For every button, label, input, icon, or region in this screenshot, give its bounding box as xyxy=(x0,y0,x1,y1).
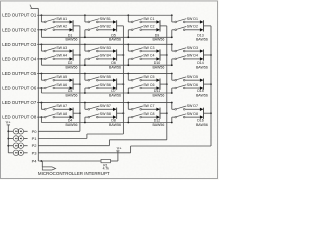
wire - switch D8 to diode xyxy=(185,116,200,118)
svg-text:SW B6: SW B6 xyxy=(100,83,111,87)
svg-text:LED OUTPUT O4: LED OUTPUT O4 xyxy=(2,56,37,61)
diode D11b xyxy=(156,86,160,89)
svg-text:SW C2: SW C2 xyxy=(143,25,154,29)
switch SW B3 xyxy=(88,46,111,52)
wire - cathode out to sense col D xyxy=(204,25,212,27)
wire - switch B7 to diode xyxy=(98,108,113,110)
wire - riser col B to row O4 routing xyxy=(84,59,86,65)
wire - cathode out to sense col A xyxy=(73,83,80,85)
switch SW A7 xyxy=(44,104,67,110)
wire - switch C6 to diode xyxy=(142,87,157,89)
diode D16a xyxy=(200,108,204,111)
switch SW B2 xyxy=(88,25,111,31)
wire - cathode out to sense col B xyxy=(117,112,124,114)
wire - cathode out to sense col D xyxy=(204,112,212,114)
junction row O1 col C xyxy=(127,14,129,16)
svg-text:P0: P0 xyxy=(32,129,38,134)
wire - cathode out to sense col A xyxy=(73,112,80,114)
wire - switch A6 to diode xyxy=(55,87,70,89)
LED indicator DS4a xyxy=(13,150,19,156)
LED indicator DS2a xyxy=(13,136,19,142)
wire - drop row O7 col A xyxy=(40,103,42,110)
wire - riser col D to row O8 routing xyxy=(171,117,173,122)
svg-text:P3: P3 xyxy=(32,150,38,155)
diode D8b xyxy=(113,115,117,118)
junction row O5 col D xyxy=(171,73,173,75)
diode D6a xyxy=(113,49,117,52)
wire - row O2 routing under-line xyxy=(41,36,171,38)
svg-text:SW B4: SW B4 xyxy=(100,54,111,58)
junction sense col C pair 4 xyxy=(166,112,168,114)
junction row O1 col A xyxy=(41,14,43,16)
wire - switch A2 to diode xyxy=(55,29,70,31)
wire - row O4 routing under-line xyxy=(41,64,171,66)
LED indicator DS4b xyxy=(18,150,24,156)
svg-text:D6: D6 xyxy=(111,61,116,65)
svg-text:SW A2: SW A2 xyxy=(56,25,67,29)
wire - riser col A row O4 xyxy=(40,59,42,65)
junction row O3 col C xyxy=(127,43,129,45)
junction row O7 col C xyxy=(127,102,129,104)
wire - cathode out to sense col A xyxy=(73,25,80,27)
diode D13b xyxy=(200,28,204,31)
junction under-line col B xyxy=(84,92,86,94)
wire - riser col C to row O8 routing xyxy=(127,117,129,122)
wire - switch D7 to diode xyxy=(185,108,200,110)
junction under-line col B xyxy=(84,122,86,124)
switch SW C6 xyxy=(131,83,154,89)
wire - drop row O7 col C xyxy=(127,103,129,110)
wire - switch A5 to diode xyxy=(55,79,70,81)
wire - net P0 horizontal xyxy=(38,130,80,132)
switch SW C3 xyxy=(131,46,154,52)
wire - switch A4 to diode xyxy=(55,58,70,60)
switch SW D7 xyxy=(175,104,198,110)
junction under-line col C xyxy=(127,64,129,66)
svg-text:LED OUTPUT O2: LED OUTPUT O2 xyxy=(2,27,37,32)
diode D15b xyxy=(200,86,204,89)
svg-text:D7: D7 xyxy=(111,89,116,93)
diode D7a xyxy=(113,78,117,81)
svg-text:SW D6: SW D6 xyxy=(187,83,198,87)
wire - row O7 horizontal xyxy=(37,102,172,104)
junction sense col A pair 2 xyxy=(79,54,81,56)
wire - riser col B to row O2 routing xyxy=(84,30,86,38)
junction sense col B pair 3 xyxy=(123,83,125,85)
junction under-line col D xyxy=(171,36,173,38)
wire - switch C1 to diode xyxy=(142,21,157,23)
diode D8a xyxy=(113,108,117,111)
wire - R1 to V+ xyxy=(111,160,118,162)
wire - row O5 horizontal xyxy=(37,72,172,74)
svg-text:SW D7: SW D7 xyxy=(187,104,198,108)
svg-text:BAW56: BAW56 xyxy=(152,93,164,97)
wire - switch D6 to diode xyxy=(185,87,200,89)
wire - cathode out to sense col B xyxy=(117,54,124,56)
diode D9a xyxy=(156,20,160,23)
wire - P4 drop to interrupt flag xyxy=(41,161,43,167)
switch SW B6 xyxy=(88,83,111,89)
wire - switch D2 to diode xyxy=(185,29,200,31)
diode D16b xyxy=(200,115,204,118)
wire - riser col D to row O4 routing xyxy=(171,59,173,65)
wire - switch C7 to diode xyxy=(142,108,157,110)
svg-text:SW A5: SW A5 xyxy=(56,75,67,79)
diode D13a xyxy=(200,20,204,23)
wire - sense column D vertical xyxy=(210,26,212,146)
wire - riser col D to row O2 routing xyxy=(171,30,173,38)
junction sense col D pair 2 xyxy=(210,54,212,56)
svg-text:BAW56: BAW56 xyxy=(66,123,78,127)
wire - switch B8 to diode xyxy=(98,116,113,118)
wire - common cathode D8 xyxy=(116,108,118,119)
svg-text:SW C5: SW C5 xyxy=(143,75,154,79)
switch SW C5 xyxy=(131,75,154,81)
wire - riser col D to row O6 routing xyxy=(171,88,173,93)
wire - row O4 stub to first switch xyxy=(37,58,44,60)
wire - LED row P3 left xyxy=(8,152,13,154)
svg-text:D16: D16 xyxy=(197,119,204,123)
junction row O5 col A xyxy=(41,73,43,75)
wire - switch D1 to diode xyxy=(185,21,200,23)
switch SW D6 xyxy=(175,83,198,89)
wire - sense column B vertical xyxy=(122,26,124,134)
svg-text:D8: D8 xyxy=(111,119,116,123)
wire - left vertical interrupt bus xyxy=(37,8,39,161)
wire - switch A3 to diode xyxy=(55,50,70,52)
svg-text:BAW56: BAW56 xyxy=(109,93,121,97)
switch SW B5 xyxy=(88,75,111,81)
svg-text:LED OUTPUT O7: LED OUTPUT O7 xyxy=(2,100,37,105)
wire - row O8 stub to first switch xyxy=(37,116,44,118)
wire - cathode out to sense col D xyxy=(204,83,212,85)
LED indicator DS3b xyxy=(18,143,24,149)
junction P4 flag branch xyxy=(40,160,42,162)
svg-text:BAW56: BAW56 xyxy=(152,123,164,127)
switch SW C1 xyxy=(131,17,154,23)
wire - LED row P0 left xyxy=(8,130,13,132)
switch SW C8 xyxy=(131,112,154,118)
LED indicator DS1a xyxy=(13,129,19,135)
junction sense col B pair 2 xyxy=(123,54,125,56)
wire - common cathode D11 xyxy=(159,78,161,89)
wire - cathode out to sense col C xyxy=(160,112,167,114)
svg-text:SW D4: SW D4 xyxy=(187,54,198,58)
diode D7b xyxy=(113,86,117,89)
junction under-line col C xyxy=(127,122,129,124)
svg-text:SW C6: SW C6 xyxy=(143,83,154,87)
wire - common cathode D5 xyxy=(116,20,118,31)
svg-text:BAW56: BAW56 xyxy=(196,66,208,70)
wire - switch C8 to diode xyxy=(142,116,157,118)
junction V+ feed P0 xyxy=(7,130,9,132)
wire - riser col C to row O6 routing xyxy=(127,88,129,93)
svg-text:SW C1: SW C1 xyxy=(143,17,154,21)
svg-text:BAW56: BAW56 xyxy=(66,66,78,70)
svg-text:SW B7: SW B7 xyxy=(100,104,111,108)
svg-text:D9: D9 xyxy=(155,33,160,37)
junction row O3 col D xyxy=(171,43,173,45)
wire - drop row O5 col A xyxy=(40,73,42,80)
wire - switch C3 to diode xyxy=(142,50,157,52)
switch SW A5 xyxy=(44,75,67,81)
svg-text:SW C3: SW C3 xyxy=(143,46,154,50)
junction under-line col C xyxy=(127,92,129,94)
svg-text:SW C7: SW C7 xyxy=(143,104,154,108)
wire - common cathode D4 xyxy=(72,108,74,119)
junction under-line col D xyxy=(171,92,173,94)
wire - common cathode D12 xyxy=(159,108,161,119)
svg-text:BAW56: BAW56 xyxy=(196,93,208,97)
svg-text:SW D2: SW D2 xyxy=(187,25,198,29)
wire - row O3 horizontal xyxy=(37,43,172,45)
svg-text:BAW56: BAW56 xyxy=(196,123,208,127)
wire - riser col B to row O8 routing xyxy=(84,117,86,122)
wire - net P1 routing xyxy=(87,133,124,135)
wire - V+ vertical feed xyxy=(7,125,9,153)
wire - riser col C to row O2 routing xyxy=(127,30,129,38)
junction row O7 col D xyxy=(171,102,173,104)
wire - LED row P0 right stub xyxy=(24,130,28,132)
wire - drop row O5 col D xyxy=(171,73,173,80)
wire - common cathode D9 xyxy=(159,20,161,31)
wire - cathode out to sense col C xyxy=(160,25,167,27)
wire - cathode out to sense col A xyxy=(73,54,80,56)
wire - common cathode D13 xyxy=(203,20,205,31)
wire - drop row O5 col B xyxy=(84,73,86,80)
wire - common cathode D6 xyxy=(116,49,118,60)
diode D4b xyxy=(70,115,74,118)
switch SW D4 xyxy=(175,54,198,60)
junction V+ feed P1 xyxy=(7,138,9,140)
junction row O1 col D xyxy=(171,14,173,16)
svg-text:SW B1: SW B1 xyxy=(100,17,111,21)
svg-text:D1: D1 xyxy=(68,33,73,37)
wire - cathode out to sense col C xyxy=(160,54,167,56)
svg-text:SW D1: SW D1 xyxy=(187,17,198,21)
svg-text:D5: D5 xyxy=(111,33,116,37)
junction sense col C pair 3 xyxy=(166,83,168,85)
wire - LED row P1 right stub xyxy=(24,138,28,140)
wire - common cathode D16 xyxy=(203,108,205,119)
switch SW C2 xyxy=(131,25,154,31)
switch SW D2 xyxy=(175,25,198,31)
wire - cathode out to sense col D xyxy=(204,54,212,56)
wire - drop row O3 col A xyxy=(40,44,42,51)
LED indicator DS2b xyxy=(18,136,24,142)
svg-text:D14: D14 xyxy=(197,61,204,65)
junction row O5 col C xyxy=(127,73,129,75)
switch SW B4 xyxy=(88,54,111,60)
svg-text:SW D3: SW D3 xyxy=(187,46,198,50)
svg-text:SW D8: SW D8 xyxy=(187,112,198,116)
svg-text:SW A1: SW A1 xyxy=(56,17,67,21)
LED indicator DS3a xyxy=(13,143,19,149)
svg-text:LED OUTPUT O5: LED OUTPUT O5 xyxy=(2,71,37,76)
diode D4a xyxy=(70,108,74,111)
svg-text:V+: V+ xyxy=(117,146,123,151)
switch SW B8 xyxy=(88,112,111,118)
wire - drop row O5 col C xyxy=(127,73,129,80)
wire - switch B5 to diode xyxy=(98,79,113,81)
wire - riser col A row O8 xyxy=(40,117,42,122)
wire - switch B1 to diode xyxy=(98,21,113,23)
svg-text:V+: V+ xyxy=(6,120,12,125)
svg-text:P1: P1 xyxy=(32,136,38,141)
diode D2b xyxy=(70,57,74,60)
LED indicator DS1b xyxy=(18,129,24,135)
diode D10a xyxy=(156,49,160,52)
wire - riser col B to row O6 routing xyxy=(84,88,86,93)
wire - switch A7 to diode xyxy=(55,108,70,110)
wire - switch A1 to diode xyxy=(55,21,70,23)
wire - row O1 horizontal xyxy=(37,14,172,16)
diode D10b xyxy=(156,57,160,60)
junction sense col A pair 4 xyxy=(79,112,81,114)
wire - row O6 routing under-line xyxy=(41,92,171,94)
wire - drop row O7 col B xyxy=(84,103,86,110)
junction under-line col D xyxy=(171,64,173,66)
wire - drop row O1 col C xyxy=(127,15,129,22)
svg-text:D4: D4 xyxy=(68,119,73,123)
resistor R1 xyxy=(101,159,111,162)
wire - drop row O1 col D xyxy=(171,15,173,22)
switch SW B7 xyxy=(88,104,111,110)
wire - switch C2 to diode xyxy=(142,29,157,31)
svg-text:SW B5: SW B5 xyxy=(100,75,111,79)
junction under-line col D xyxy=(171,122,173,124)
svg-text:BAW56: BAW56 xyxy=(66,93,78,97)
wire - switch B4 to diode xyxy=(98,58,113,60)
junction sense col B pair 4 xyxy=(123,112,125,114)
wire - drop row O3 col B xyxy=(84,44,86,51)
diode D12b xyxy=(156,115,160,118)
diode D5b xyxy=(113,28,117,31)
switch SW D8 xyxy=(175,112,198,118)
diode D3b xyxy=(70,86,74,89)
diode D9b xyxy=(156,28,160,31)
wire - row O2 stub to first switch xyxy=(37,29,44,31)
diode D15a xyxy=(200,78,204,81)
svg-text:P4: P4 xyxy=(32,159,38,164)
wire - drop row O7 col D xyxy=(171,103,173,110)
svg-text:SW C8: SW C8 xyxy=(143,112,154,116)
junction row O4 branch xyxy=(41,58,43,60)
svg-text:BAW56: BAW56 xyxy=(196,38,208,42)
wire - cathode out to sense col B xyxy=(117,25,124,27)
wire - switch C4 to diode xyxy=(142,58,157,60)
diode D14a xyxy=(200,49,204,52)
junction under-line col B xyxy=(84,64,86,66)
diode D6b xyxy=(113,57,117,60)
junction row O8 branch xyxy=(41,116,43,118)
junction row O5 col B xyxy=(84,73,86,75)
wire - switch A8 to diode xyxy=(55,116,70,118)
wire - LED row P2 left xyxy=(8,145,13,147)
svg-text:BAW56: BAW56 xyxy=(109,123,121,127)
svg-text:BAW56: BAW56 xyxy=(152,66,164,70)
svg-text:D13: D13 xyxy=(197,33,204,37)
junction row O1 col B xyxy=(84,14,86,16)
wire - net P3 routing xyxy=(131,145,211,147)
wire - common cathode D3 xyxy=(72,78,74,89)
svg-text:BAW56: BAW56 xyxy=(109,38,121,42)
wire - switch B3 to diode xyxy=(98,50,113,52)
wire - switch B6 to diode xyxy=(98,87,113,89)
wire - LED row P3 right stub xyxy=(24,152,28,154)
node interrupt flag xyxy=(42,167,55,170)
svg-text:MICROCONTROLLER INTERRUPT: MICROCONTROLLER INTERRUPT xyxy=(38,171,110,176)
wire - drop row O3 col D xyxy=(171,44,173,51)
switch SW C4 xyxy=(131,54,154,60)
junction row O7 col B xyxy=(84,102,86,104)
junction row O2 branch xyxy=(41,29,43,31)
svg-text:SW A8: SW A8 xyxy=(56,112,67,116)
switch SW A3 xyxy=(44,46,67,52)
svg-text:P2: P2 xyxy=(32,143,38,148)
wire - net P4 interrupt line xyxy=(38,160,101,162)
wire - drop row O3 col C xyxy=(127,44,129,51)
junction under-line col B xyxy=(84,36,86,38)
wire - row O6 stub to first switch xyxy=(37,87,44,89)
wire - common cathode D7 xyxy=(116,78,118,89)
wire - riser col C to row O4 routing xyxy=(127,59,129,65)
diode D1a xyxy=(70,20,74,23)
svg-text:D2: D2 xyxy=(68,61,73,65)
wire - switch D3 to diode xyxy=(185,50,200,52)
wire - common cathode D15 xyxy=(203,78,205,89)
svg-text:SW D5: SW D5 xyxy=(187,75,198,79)
wire - LED row P1 left xyxy=(8,138,13,140)
svg-text:SW B2: SW B2 xyxy=(100,25,111,29)
junction sense col C pair 2 xyxy=(166,54,168,56)
junction V+ feed P2 xyxy=(7,145,9,147)
svg-text:BAW56: BAW56 xyxy=(152,38,164,42)
wire - drop row O1 col A xyxy=(40,15,42,22)
svg-text:LED OUTPUT O3: LED OUTPUT O3 xyxy=(2,42,37,47)
svg-text:SW C4: SW C4 xyxy=(143,54,154,58)
wire - drop row O1 col B xyxy=(84,15,86,22)
switch SW C7 xyxy=(131,104,154,110)
wire - sense column C vertical xyxy=(166,26,168,140)
wire - cathode out to sense col C xyxy=(160,83,167,85)
wire - switch B2 to diode xyxy=(98,29,113,31)
wire - LED row P2 right stub xyxy=(24,145,28,147)
wire - common cathode D14 xyxy=(203,49,205,60)
svg-text:SW A3: SW A3 xyxy=(56,46,67,50)
diode D1b xyxy=(70,28,74,31)
svg-text:LED OUTPUT O1: LED OUTPUT O1 xyxy=(2,13,37,18)
diode D12a xyxy=(156,108,160,111)
wire - row O8 routing under-line xyxy=(41,122,171,124)
junction row O3 col B xyxy=(84,43,86,45)
svg-text:SW A6: SW A6 xyxy=(56,83,67,87)
wire - cathode out to sense col B xyxy=(117,83,124,85)
svg-text:SW A7: SW A7 xyxy=(56,104,67,108)
svg-text:D3: D3 xyxy=(68,89,73,93)
switch SW A8 xyxy=(44,112,67,118)
svg-text:BAW56: BAW56 xyxy=(66,38,78,42)
switch SW D3 xyxy=(175,46,198,52)
switch SW A2 xyxy=(44,25,67,31)
wire - common cathode D1 xyxy=(72,20,74,31)
svg-text:D11: D11 xyxy=(154,89,160,93)
svg-text:LED OUTPUT O6: LED OUTPUT O6 xyxy=(2,85,37,90)
junction sense col A pair 3 xyxy=(79,83,81,85)
svg-text:D10: D10 xyxy=(154,61,161,65)
junction row O7 col A xyxy=(41,102,43,104)
diode D11a xyxy=(156,78,160,81)
